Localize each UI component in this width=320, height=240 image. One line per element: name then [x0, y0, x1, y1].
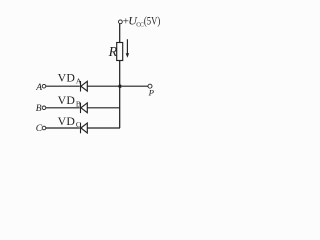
input terminal A — [42, 84, 46, 88]
wire — [46, 107, 80, 109]
wire — [122, 85, 148, 87]
svg-text:CC: CC — [136, 21, 144, 28]
input terminal C — [42, 126, 46, 130]
wire — [87, 127, 120, 129]
diode VDA — [81, 81, 88, 92]
svg-text:VD: VD — [58, 71, 76, 85]
wire — [46, 127, 80, 129]
wire — [87, 107, 120, 109]
resistor R — [117, 43, 123, 61]
node junction dot — [118, 85, 121, 88]
svg-text:A: A — [35, 83, 42, 93]
svg-text:VD: VD — [58, 114, 76, 128]
diode VDC — [81, 123, 88, 134]
svg-text:C: C — [36, 124, 43, 134]
input terminal B — [42, 106, 46, 110]
label VDC — [58, 114, 81, 129]
svg-text:VD: VD — [58, 93, 76, 107]
wire — [87, 85, 120, 87]
current arrow i — [126, 39, 129, 58]
output terminal P — [148, 84, 152, 88]
svg-text:B: B — [36, 104, 42, 114]
power terminal +UCC — [119, 20, 123, 24]
wire — [119, 61, 121, 129]
label VDB — [58, 93, 81, 108]
label VDA — [58, 71, 82, 86]
svg-text:B: B — [76, 99, 81, 108]
diode VDB — [81, 103, 88, 114]
wire — [119, 24, 121, 43]
svg-text:R: R — [108, 45, 118, 60]
wire — [46, 85, 80, 87]
label +UCC (5V) — [123, 13, 161, 28]
svg-text:C: C — [76, 120, 81, 129]
svg-text:A: A — [76, 77, 82, 86]
svg-text:P: P — [148, 88, 155, 98]
svg-text:(5V): (5V) — [144, 15, 161, 28]
